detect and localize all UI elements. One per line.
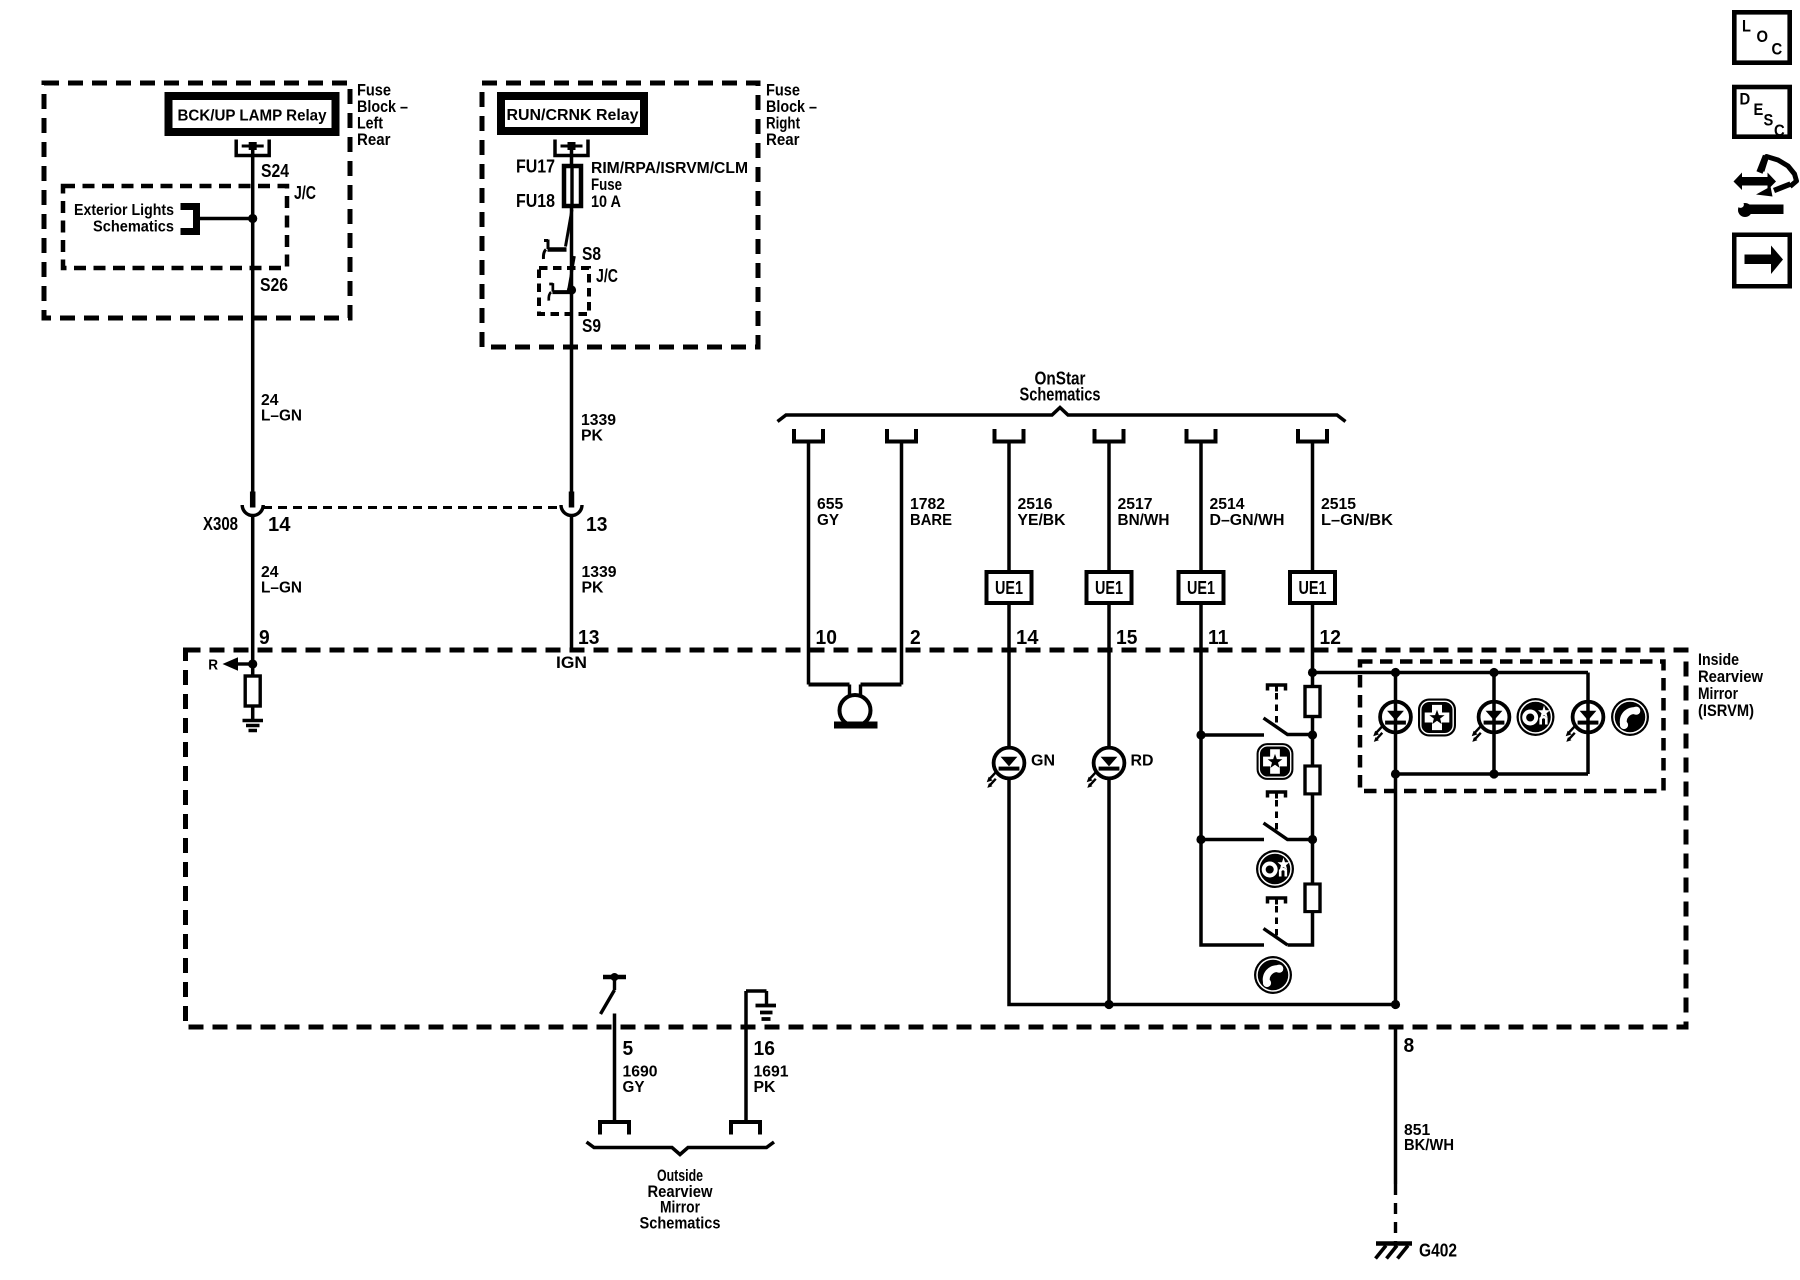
junction node wire11/switch1	[1196, 730, 1205, 739]
svg-text:1782: 1782	[910, 496, 945, 513]
svg-text:S: S	[1764, 111, 1774, 130]
resistor R2 on wire 12	[1305, 766, 1320, 794]
wire label 1690 GY	[623, 1064, 658, 1097]
svg-text:24: 24	[261, 564, 279, 581]
svg-text:Rear: Rear	[766, 130, 800, 149]
svg-text:L–GN: L–GN	[261, 408, 302, 425]
svg-text:S8: S8	[582, 244, 601, 264]
case ground symbol on pin 16	[746, 991, 776, 1019]
label RD	[1131, 753, 1154, 770]
pin number 12	[1320, 627, 1341, 649]
wire label 1691 PK	[754, 1064, 789, 1097]
icon box LOC	[1734, 12, 1789, 62]
svg-text:2517: 2517	[1118, 496, 1153, 513]
switch SW1 (mute/emergency button)	[1201, 718, 1313, 735]
pin number 11	[1208, 627, 1228, 649]
relay pin terminal of BCK/UP LAMP Relay	[236, 140, 269, 156]
connector terminal pin 15	[1095, 429, 1124, 442]
wire 2516 YE/BK from terminal to pin 14	[1007, 442, 1011, 748]
net label IGN	[556, 653, 587, 672]
label G402	[1419, 1241, 1457, 1261]
splice S9 label	[582, 316, 601, 336]
in-line connector X308 pin 14	[242, 492, 263, 516]
icon: navigate arrows with wrench	[1734, 156, 1797, 217]
wire 12 ladder segments with resistors	[1288, 717, 1313, 946]
LED indicator branch1	[1373, 702, 1411, 742]
svg-text:24: 24	[261, 392, 279, 409]
pushbutton icon: emergency cross	[1257, 743, 1294, 780]
svg-text:FU18: FU18	[516, 191, 555, 211]
connector UE1 on wire 2517	[1087, 572, 1132, 603]
label FU17	[516, 157, 555, 177]
svg-text:L–GN/BK: L–GN/BK	[1321, 512, 1393, 529]
wire 11 bus down the switch ladder	[1201, 735, 1264, 945]
svg-text:J/C: J/C	[596, 266, 618, 286]
svg-text:J/C: J/C	[294, 183, 316, 203]
wire 2515 L-GN/BK from terminal to pin 12	[1311, 442, 1315, 687]
wire label 24 L-GN (below X308)	[261, 564, 302, 597]
label: Exterior Lights Schematics	[74, 202, 174, 236]
wire label 2514 D-GN/WH	[1210, 496, 1285, 529]
svg-text:10 A: 10 A	[591, 192, 621, 211]
connector UE1 on wire 2514	[1179, 572, 1224, 603]
svg-text:GY: GY	[623, 1079, 645, 1096]
LED RD indicator on wire 15	[1087, 748, 1125, 788]
wire: X308 pin13 down to ISRVM pin 13	[570, 517, 574, 651]
svg-text:S24: S24	[261, 161, 289, 181]
svg-text:16: 16	[754, 1038, 775, 1060]
LED branch 3 wire	[1586, 673, 1590, 775]
connector UE1 on wire 2516	[987, 572, 1032, 603]
wire 2517 BN/WH from terminal to pin 15	[1107, 442, 1111, 748]
brace under outside mirror terminals	[587, 1142, 775, 1155]
wire label 24 L-GN (above X308)	[261, 392, 302, 425]
svg-text:UE1: UE1	[1187, 578, 1215, 598]
junction node ground bus/pin 8 drop	[1391, 1000, 1400, 1009]
splice S8 symbol	[543, 210, 572, 260]
dashed connector tie line X308	[263, 506, 562, 509]
splice S24 label	[261, 161, 289, 181]
LED status display dashed box	[1360, 662, 1664, 792]
label: Outside Rearview Mirror Schematics	[640, 1166, 721, 1233]
svg-text:2515: 2515	[1321, 496, 1356, 513]
svg-text:Schematics: Schematics	[93, 219, 174, 236]
LED GN indicator on wire 14	[987, 748, 1025, 788]
junction node wire12/switch1	[1308, 730, 1317, 739]
svg-text:D: D	[1740, 90, 1751, 109]
wire: exterior lights tap to splice S26	[198, 217, 253, 221]
junction node wire12/switch2	[1308, 835, 1317, 844]
svg-text:655: 655	[817, 496, 843, 513]
pin number 13 at IGN	[578, 627, 599, 649]
svg-text:1691: 1691	[754, 1064, 789, 1081]
label: Fuse Block - Left Rear	[357, 81, 408, 150]
svg-text:BARE: BARE	[910, 512, 952, 529]
svg-text:9: 9	[259, 627, 270, 649]
relay K: BCK/UP LAMP Relay title box	[169, 96, 336, 132]
svg-text:2516: 2516	[1018, 496, 1053, 513]
fuse FU17/FU18 RIM/RPA/ISRVM/CLM 10A	[564, 166, 581, 206]
junction node wire11/switch2	[1196, 835, 1205, 844]
svg-text:PK: PK	[581, 428, 603, 445]
svg-text:FU17: FU17	[516, 157, 555, 177]
junction block J/C dashed box (left)	[63, 186, 287, 268]
wire 655 GY from terminal to pin 10	[807, 442, 811, 685]
in-line connector X308 pin 13	[561, 492, 582, 516]
svg-text:BCK/UP LAMP Relay: BCK/UP LAMP Relay	[178, 108, 327, 125]
resistor R3 on wire 12	[1305, 884, 1320, 912]
switch SW1 linkage dashed	[1275, 693, 1278, 726]
wire label 2516 YE/BK	[1018, 496, 1066, 529]
icon: phone (LED box)	[1611, 698, 1649, 736]
LED indicator branch3	[1566, 702, 1604, 742]
wire: relay through fuse down to connector pin 13	[570, 146, 574, 492]
pushbutton icon: phone	[1254, 956, 1292, 994]
chassis ground G402	[1376, 1244, 1413, 1259]
fuse block right rear dashed enclosure	[482, 83, 758, 347]
LED indicator branch2	[1472, 702, 1510, 742]
wire label 1339 PK (below X308)	[582, 564, 617, 597]
switch SW1 actuator cap	[1268, 685, 1286, 692]
icon box DESC	[1734, 87, 1789, 140]
svg-text:2: 2	[910, 627, 921, 649]
label: RIM/RPA/ISRVM/CLM Fuse 10 A	[591, 160, 748, 211]
LED return bus wire	[1396, 774, 1589, 1005]
junction block J/C dashed box (right small)	[539, 268, 589, 314]
junction node at S9	[567, 285, 576, 294]
pushbutton icon: OnStar	[1256, 850, 1294, 888]
switch SW2 linkage dashed	[1275, 800, 1278, 830]
connector terminal pin 14	[995, 429, 1024, 442]
pin number 15	[1116, 627, 1137, 649]
pin number 16	[754, 1038, 775, 1060]
svg-text:X308: X308	[203, 514, 238, 534]
wire label 851 BK/WH	[1404, 1122, 1454, 1154]
svg-text:G402: G402	[1419, 1241, 1457, 1261]
svg-text:GY: GY	[817, 512, 839, 529]
splice S9 symbol	[549, 256, 575, 301]
svg-text:14: 14	[268, 514, 291, 536]
switch SW3 (phone button)	[1264, 929, 1288, 946]
svg-text:Schematics: Schematics	[1020, 385, 1101, 405]
resistor (backup lamp input pull)	[245, 676, 260, 706]
svg-text:GN: GN	[1031, 753, 1055, 770]
dashed wire to ground G402	[1394, 1184, 1397, 1248]
wire label 2515 L-GN/BK	[1321, 496, 1393, 529]
svg-text:S26: S26	[260, 275, 288, 295]
svg-text:UE1: UE1	[1095, 578, 1123, 598]
label X308	[203, 514, 238, 534]
svg-text:Rear: Rear	[357, 130, 391, 149]
wire: resistor to ground	[251, 706, 255, 720]
wire: pin 9 into resistor	[251, 650, 255, 676]
connector terminal pin 10	[794, 429, 823, 442]
wire: pin 12 feed across LED box	[1313, 671, 1589, 675]
svg-text:13: 13	[578, 627, 599, 649]
svg-text:14: 14	[1016, 627, 1039, 649]
svg-text:5: 5	[623, 1038, 634, 1060]
svg-text:1690: 1690	[623, 1064, 658, 1081]
pin number 14	[1016, 627, 1039, 649]
junction node feed/branch2	[1489, 668, 1498, 677]
wire label 2517 BN/WH	[1118, 496, 1170, 529]
svg-text:2514: 2514	[1210, 496, 1245, 513]
svg-text:BK/WH: BK/WH	[1404, 1137, 1454, 1154]
svg-text:1339: 1339	[581, 412, 616, 429]
switch SW3 actuator cap	[1268, 898, 1286, 905]
svg-text:11: 11	[1208, 627, 1228, 649]
bracket to Exterior Lights Schematics	[181, 207, 197, 232]
svg-text:12: 12	[1320, 627, 1341, 649]
svg-text:R: R	[208, 657, 218, 674]
label J/C	[294, 183, 316, 203]
wire: relay output down to connector X308 pin 14	[251, 146, 255, 492]
connector terminal pin 2	[887, 429, 916, 442]
connector terminal pin 12	[1298, 429, 1327, 442]
svg-text:RUN/CRNK Relay: RUN/CRNK Relay	[507, 107, 639, 124]
junction node return/branch1	[1391, 769, 1400, 778]
svg-text:Exterior Lights: Exterior Lights	[74, 202, 174, 219]
icon box forward arrow	[1734, 235, 1790, 287]
wire 2514 D-GN/WH from terminal to pin 11	[1199, 442, 1203, 736]
relay K: RUN/CRNK Relay title box	[501, 96, 644, 131]
svg-text:PK: PK	[754, 1079, 776, 1096]
svg-text:15: 15	[1116, 627, 1137, 649]
connector terminal pin 16 (outside mirror)	[731, 1122, 760, 1135]
svg-text:UE1: UE1	[1299, 578, 1327, 598]
svg-text:PK: PK	[582, 580, 604, 597]
svg-text:UE1: UE1	[995, 578, 1023, 598]
label GN	[1031, 753, 1055, 770]
svg-text:1339: 1339	[582, 564, 617, 581]
svg-text:L–GN: L–GN	[261, 580, 302, 597]
svg-text:YE/BK: YE/BK	[1018, 512, 1066, 529]
fuse block left rear dashed enclosure	[44, 83, 350, 318]
wire 1691 PK from ground to pin 16	[744, 991, 748, 1121]
wire 1782 BARE from terminal to pin 2	[900, 442, 904, 685]
label R	[208, 657, 218, 674]
switch SW3 linkage dashed	[1275, 906, 1278, 936]
wire 851 BK/WH from pin 8 down	[1394, 1027, 1398, 1184]
ground (internal)	[243, 721, 264, 731]
LED branch 1 wire	[1394, 673, 1398, 775]
svg-text:RD: RD	[1131, 753, 1154, 770]
signal arrow R	[223, 657, 253, 670]
wire label 1782 BARE	[910, 496, 952, 529]
junction node wire12/LED box feed	[1308, 668, 1317, 677]
pin number 14	[268, 514, 291, 536]
brace over OnStar connector terminals	[778, 408, 1346, 422]
svg-text:E: E	[1754, 100, 1764, 119]
svg-text:C: C	[1772, 40, 1783, 59]
junction node at R arrow	[248, 659, 257, 668]
connector UE1 on wire 2515	[1290, 572, 1335, 603]
ISRVM inside rearview mirror dashed enclosure	[186, 650, 1687, 1027]
label: Fuse Block - Right Rear	[766, 81, 817, 150]
wire label 655 GY	[817, 496, 843, 529]
junction node wire15/ground bus	[1104, 1000, 1113, 1009]
connector terminal pin 5 (outside mirror)	[600, 1122, 629, 1135]
svg-text:(ISRVM): (ISRVM)	[1698, 701, 1754, 720]
junction node feed/branch1	[1391, 668, 1400, 677]
switch SW2 (OnStar button)	[1201, 823, 1313, 840]
svg-text:S9: S9	[582, 316, 601, 336]
wire: LED RD down to ground bus	[1107, 779, 1111, 1005]
resistor R1 on wire 12	[1305, 687, 1320, 717]
svg-text:D–GN/WH: D–GN/WH	[1210, 512, 1285, 529]
relay pin terminal of RUN/CRNK Relay	[555, 140, 588, 156]
lamp: mirror backlight between pins 10 and 2	[809, 685, 902, 729]
label: OnStar Schematics	[1020, 369, 1101, 405]
svg-text:13: 13	[586, 514, 607, 536]
svg-text:10: 10	[816, 627, 837, 649]
splice S26 label	[260, 275, 288, 295]
wire: LED GN down and across to ground bus	[1009, 779, 1396, 1005]
switch SW2 actuator cap	[1268, 792, 1286, 799]
wire 1690 GY from switch to pin 5	[613, 1014, 617, 1122]
pin number 8	[1404, 1035, 1415, 1057]
svg-text:IGN: IGN	[556, 653, 587, 672]
svg-text:BN/WH: BN/WH	[1118, 512, 1170, 529]
svg-text:O: O	[1757, 27, 1769, 46]
junction node at S26	[248, 214, 257, 223]
connector terminal pin 11	[1187, 429, 1216, 442]
wire label 1339 PK (above pin 13)	[581, 412, 616, 445]
svg-text:Schematics: Schematics	[640, 1214, 721, 1233]
pin number 9	[259, 627, 270, 649]
mirror fold switch on pin 5	[601, 973, 627, 1014]
svg-text:8: 8	[1404, 1035, 1415, 1057]
junction node return/branch2	[1489, 769, 1498, 778]
icon: OnStar (LED box)	[1517, 698, 1555, 736]
icon: emergency cross (LED box)	[1418, 699, 1456, 737]
wire: X308 pin14 down to ISRVM pin 9	[251, 517, 255, 651]
pin number 10	[816, 627, 837, 649]
pin number 13	[586, 514, 607, 536]
svg-text:C: C	[1774, 121, 1785, 140]
label: Inside Rearview Mirror (ISRVM)	[1698, 650, 1764, 720]
svg-text:L: L	[1742, 17, 1751, 36]
pin number 2	[910, 627, 921, 649]
splice S8 label	[582, 244, 601, 264]
LED branch 2 wire	[1492, 673, 1496, 775]
pin number 5	[623, 1038, 634, 1060]
label FU18	[516, 191, 555, 211]
label J/C small	[596, 266, 618, 286]
